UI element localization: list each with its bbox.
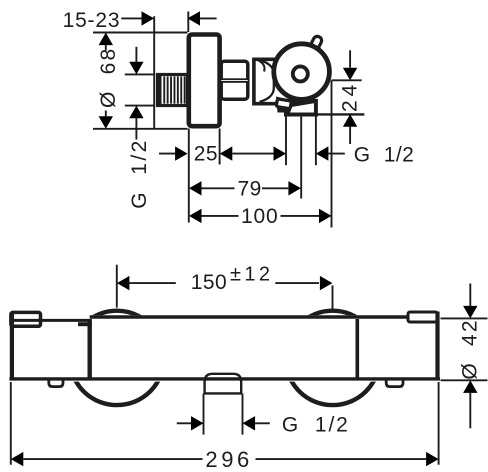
svg-text:296: 296 bbox=[205, 447, 253, 472]
svg-text:100: 100 bbox=[241, 205, 278, 228]
svg-text:24: 24 bbox=[339, 81, 362, 112]
svg-text:±12: ±12 bbox=[230, 264, 273, 286]
svg-text:25: 25 bbox=[194, 143, 218, 166]
svg-text:150: 150 bbox=[191, 271, 227, 294]
svg-text:G 1/2: G 1/2 bbox=[128, 138, 151, 208]
svg-text:79: 79 bbox=[238, 178, 262, 201]
svg-text:G 1/2: G 1/2 bbox=[282, 414, 350, 437]
svg-text:Ø 68: Ø 68 bbox=[97, 47, 120, 108]
svg-text:G 1/2: G 1/2 bbox=[354, 143, 414, 166]
svg-text:15-23: 15-23 bbox=[63, 9, 121, 32]
svg-text:Ø 42: Ø 42 bbox=[458, 318, 481, 379]
